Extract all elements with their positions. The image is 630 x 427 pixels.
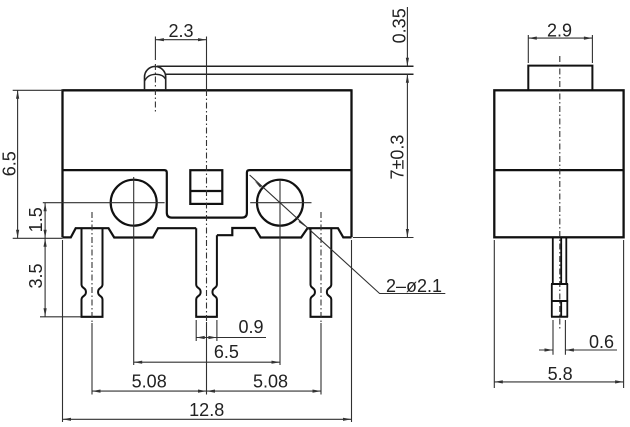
front view: centre pusher rectangle [190, 170, 222, 204]
circle 1 crosshair [43, 177, 165, 365]
svg-text:2.3: 2.3 [168, 21, 193, 41]
front view: cover parting line and centre cutout [63, 170, 352, 218]
pin 1 terminal [82, 228, 103, 316]
dimension 2.3 [155, 39, 206, 41]
pin 3 centreline [320, 212, 322, 323]
svg-text:0.6: 0.6 [589, 332, 614, 352]
side view: button [528, 66, 592, 91]
front view: pusher divider line [190, 190, 222, 192]
dimension 5.08 right [207, 390, 322, 392]
svg-text:7±0.3: 7±0.3 [388, 135, 408, 180]
dimension 6.5 bottom [134, 361, 280, 363]
dimension 0.6 [553, 320, 565, 355]
dimension 3.5 [40, 238, 81, 316]
side view: centreline [559, 56, 561, 330]
mounting hole circle 1 [111, 180, 157, 226]
dimension 5.8 [494, 240, 623, 388]
pin 1 centreline [91, 212, 93, 323]
mounting hole circle 2 [257, 180, 303, 226]
dimension 7±0.3 [406, 229, 409, 238]
svg-text:5.08: 5.08 [253, 372, 288, 392]
dimension 0.35 [406, 7, 408, 238]
front view: bottom contour with pin bosses [63, 228, 352, 238]
svg-text:1.5: 1.5 [26, 207, 46, 232]
svg-text:2–ø2.1: 2–ø2.1 [386, 276, 442, 296]
dimension 12.8 [63, 240, 352, 422]
hinge centreline [154, 37, 156, 61]
pin 2 terminal [196, 228, 217, 316]
svg-text:0.35: 0.35 [390, 8, 410, 43]
svg-text:5.08: 5.08 [132, 372, 167, 392]
svg-text:6.5: 6.5 [214, 342, 239, 362]
dimension 1.5 [44, 203, 46, 239]
side view: pin [553, 238, 567, 284]
svg-text:12.8: 12.8 [189, 400, 224, 420]
side view: body outline [494, 90, 623, 237]
svg-text:0.9: 0.9 [238, 317, 263, 337]
leader 2-ø2.1 [250, 175, 446, 294]
lever arm top line [157, 65, 414, 67]
dimension 5.08 left [92, 390, 207, 392]
svg-text:2.9: 2.9 [547, 21, 572, 41]
pin 2 centreline [206, 37, 208, 91]
dimension 6.5 left [13, 90, 63, 238]
svg-text:5.8: 5.8 [548, 364, 573, 384]
front view: switch body outline [63, 89, 352, 237]
svg-text:6.5: 6.5 [0, 151, 20, 176]
lever arm bottom line [166, 73, 414, 75]
lever hinge inner arc [145, 74, 166, 81]
lever hinge boss [145, 66, 166, 90]
circle 2 crosshair [250, 180, 311, 365]
svg-text:3.5: 3.5 [26, 263, 46, 288]
dimension 2.9 [528, 35, 592, 63]
side view: parting line [494, 169, 623, 171]
pin 3 terminal [311, 228, 332, 316]
dimension 0.9 [196, 320, 217, 341]
